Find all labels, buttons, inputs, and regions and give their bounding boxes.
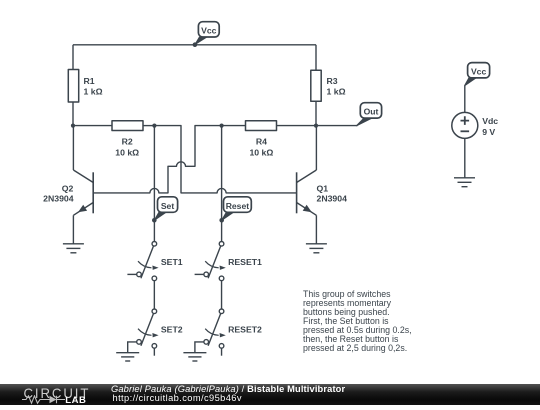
net label Vcc source — [465, 63, 490, 86]
svg-text:1 kΩ: 1 kΩ — [327, 86, 346, 96]
annotation note — [303, 289, 412, 353]
node dot: Reset label anchor — [219, 218, 224, 223]
svg-text:R1: R1 — [84, 76, 95, 86]
wire SET1 to SET2 — [153, 281, 155, 309]
svg-text:Q2: Q2 — [62, 184, 74, 194]
wire source bottom — [464, 138, 466, 177]
svg-text:Reset: Reset — [226, 201, 250, 211]
wire path B: R4/Reset node to Q2 base — [93, 126, 245, 193]
node dot: R4/Reset — [220, 124, 224, 128]
svg-text:SET1: SET1 — [161, 257, 183, 267]
transistor Q2 emitter arrow — [78, 205, 87, 213]
footer author line — [111, 384, 345, 394]
resistor R3 — [311, 70, 321, 101]
svg-text:2N3904: 2N3904 — [43, 194, 74, 204]
transistor Q1 — [297, 126, 317, 244]
svg-text:2N3904: 2N3904 — [317, 194, 348, 204]
wire RESET1 to RESET2 — [221, 281, 223, 309]
wire Reset vertical — [221, 126, 223, 242]
footer logo CIRCUIT — [24, 386, 91, 401]
footer url line — [113, 393, 242, 403]
source body — [452, 112, 478, 138]
node dot: Q2 collector — [71, 124, 75, 128]
wire R3 top stub — [315, 45, 317, 70]
wire R2 left stub — [73, 125, 112, 127]
wire R3 bottom stub — [315, 101, 317, 125]
resistor R4 — [246, 121, 277, 131]
svg-text:RESET2: RESET2 — [228, 324, 262, 334]
switch SET2 — [128, 309, 159, 356]
ground Q2 emitter — [63, 244, 84, 253]
transistor Q2 — [73, 126, 93, 244]
svg-text:Set: Set — [161, 201, 175, 211]
net label Set — [154, 197, 177, 221]
wire path A: R2/Set node to Q1 base — [154, 126, 296, 193]
wire top rail — [73, 44, 316, 46]
wire source top — [464, 86, 466, 113]
transistor Q1 emitter arrow — [303, 205, 312, 213]
svg-text:Vcc: Vcc — [201, 26, 217, 36]
svg-text:Vcc: Vcc — [471, 66, 487, 76]
ground Q1 emitter — [306, 244, 327, 253]
footer bar — [0, 384, 540, 405]
node dot: Q1 collector — [314, 124, 318, 128]
resistor R1 — [68, 70, 78, 103]
svg-text:9 V: 9 V — [482, 127, 495, 137]
svg-text:R4: R4 — [256, 137, 267, 147]
resistor R2 — [112, 121, 143, 131]
svg-text:RESET1: RESET1 — [228, 257, 262, 267]
wire Set vertical — [153, 126, 155, 242]
node dot: Vcc anchor — [193, 42, 198, 47]
footer logo squiggle — [22, 395, 66, 405]
net label Reset — [222, 197, 252, 221]
wire R4 right stub — [277, 125, 317, 127]
footer logo LAB — [65, 395, 86, 406]
wire R1 bottom stub — [72, 102, 74, 126]
svg-text:Q1: Q1 — [317, 184, 329, 194]
net label Vcc main — [195, 22, 219, 45]
ground SET2 — [116, 353, 139, 361]
ground RESET2 — [183, 353, 206, 361]
ground source — [454, 177, 475, 179]
voltage source V1 — [452, 86, 478, 187]
svg-text:Out: Out — [364, 107, 379, 117]
node dot: Set label anchor — [152, 218, 157, 223]
node dot: R2/Set — [152, 124, 156, 128]
svg-text:R2: R2 — [122, 137, 133, 147]
wire R2 right stub — [143, 125, 154, 127]
switch RESET2 — [195, 309, 226, 356]
svg-text:R3: R3 — [327, 76, 338, 86]
wire R1 top stub — [72, 45, 74, 70]
svg-text:10 kΩ: 10 kΩ — [249, 147, 273, 157]
svg-text:1 kΩ: 1 kΩ — [84, 86, 103, 96]
svg-text:Vdc: Vdc — [482, 116, 498, 126]
svg-text:pressed at 2,5 during 0,2s.: pressed at 2,5 during 0,2s. — [303, 343, 407, 353]
svg-text:SET2: SET2 — [161, 324, 183, 334]
svg-text:10 kΩ: 10 kΩ — [115, 147, 139, 157]
wire Out stub — [316, 125, 358, 127]
switch SET1 — [127, 242, 158, 281]
switch RESET1 — [195, 242, 226, 281]
net label Out — [356, 103, 381, 126]
